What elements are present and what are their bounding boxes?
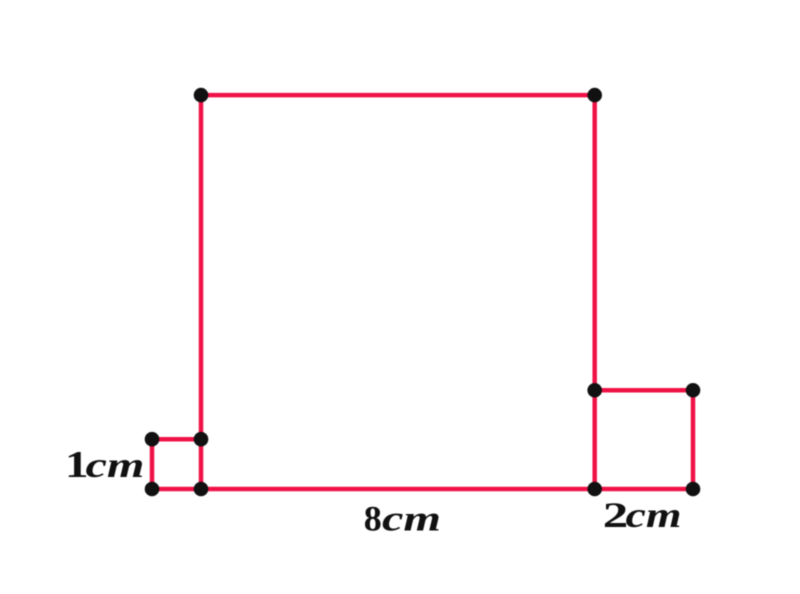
node: big square bottom-left / 1cm bottom-right	[194, 482, 209, 497]
wire: 2cm square bottom edge	[595, 487, 693, 492]
wire: big square bottom edge	[201, 487, 595, 492]
svg-text:cm: cm	[86, 445, 145, 485]
wire: 1cm square bottom edge	[152, 487, 201, 492]
svg-text:2: 2	[603, 495, 629, 535]
node: 2cm square top-right	[686, 383, 701, 398]
svg-text:cm: cm	[626, 495, 682, 535]
wire: 2cm square right edge	[691, 390, 696, 489]
wire: big square right edge	[592, 95, 597, 489]
wire: 1cm square left edge	[150, 439, 155, 489]
wire: 1cm square top edge	[152, 437, 201, 442]
svg-text:8: 8	[364, 499, 382, 539]
node: big square top-right	[587, 88, 602, 103]
node: 2cm square top-left	[587, 383, 602, 398]
wire: big square top edge	[201, 93, 595, 98]
node: 2cm square bottom-right	[686, 482, 701, 497]
node: 1cm square top-right	[194, 432, 209, 447]
node: 1cm square bottom-left	[145, 482, 160, 497]
wire: 2cm square top edge	[595, 388, 693, 393]
node: big square top-left	[194, 88, 209, 103]
wire: big square left edge	[199, 95, 204, 489]
svg-text:cm: cm	[382, 499, 441, 539]
node: big square bottom-right / 2cm bottom-left	[587, 482, 602, 497]
node: 1cm square top-left	[145, 432, 160, 447]
